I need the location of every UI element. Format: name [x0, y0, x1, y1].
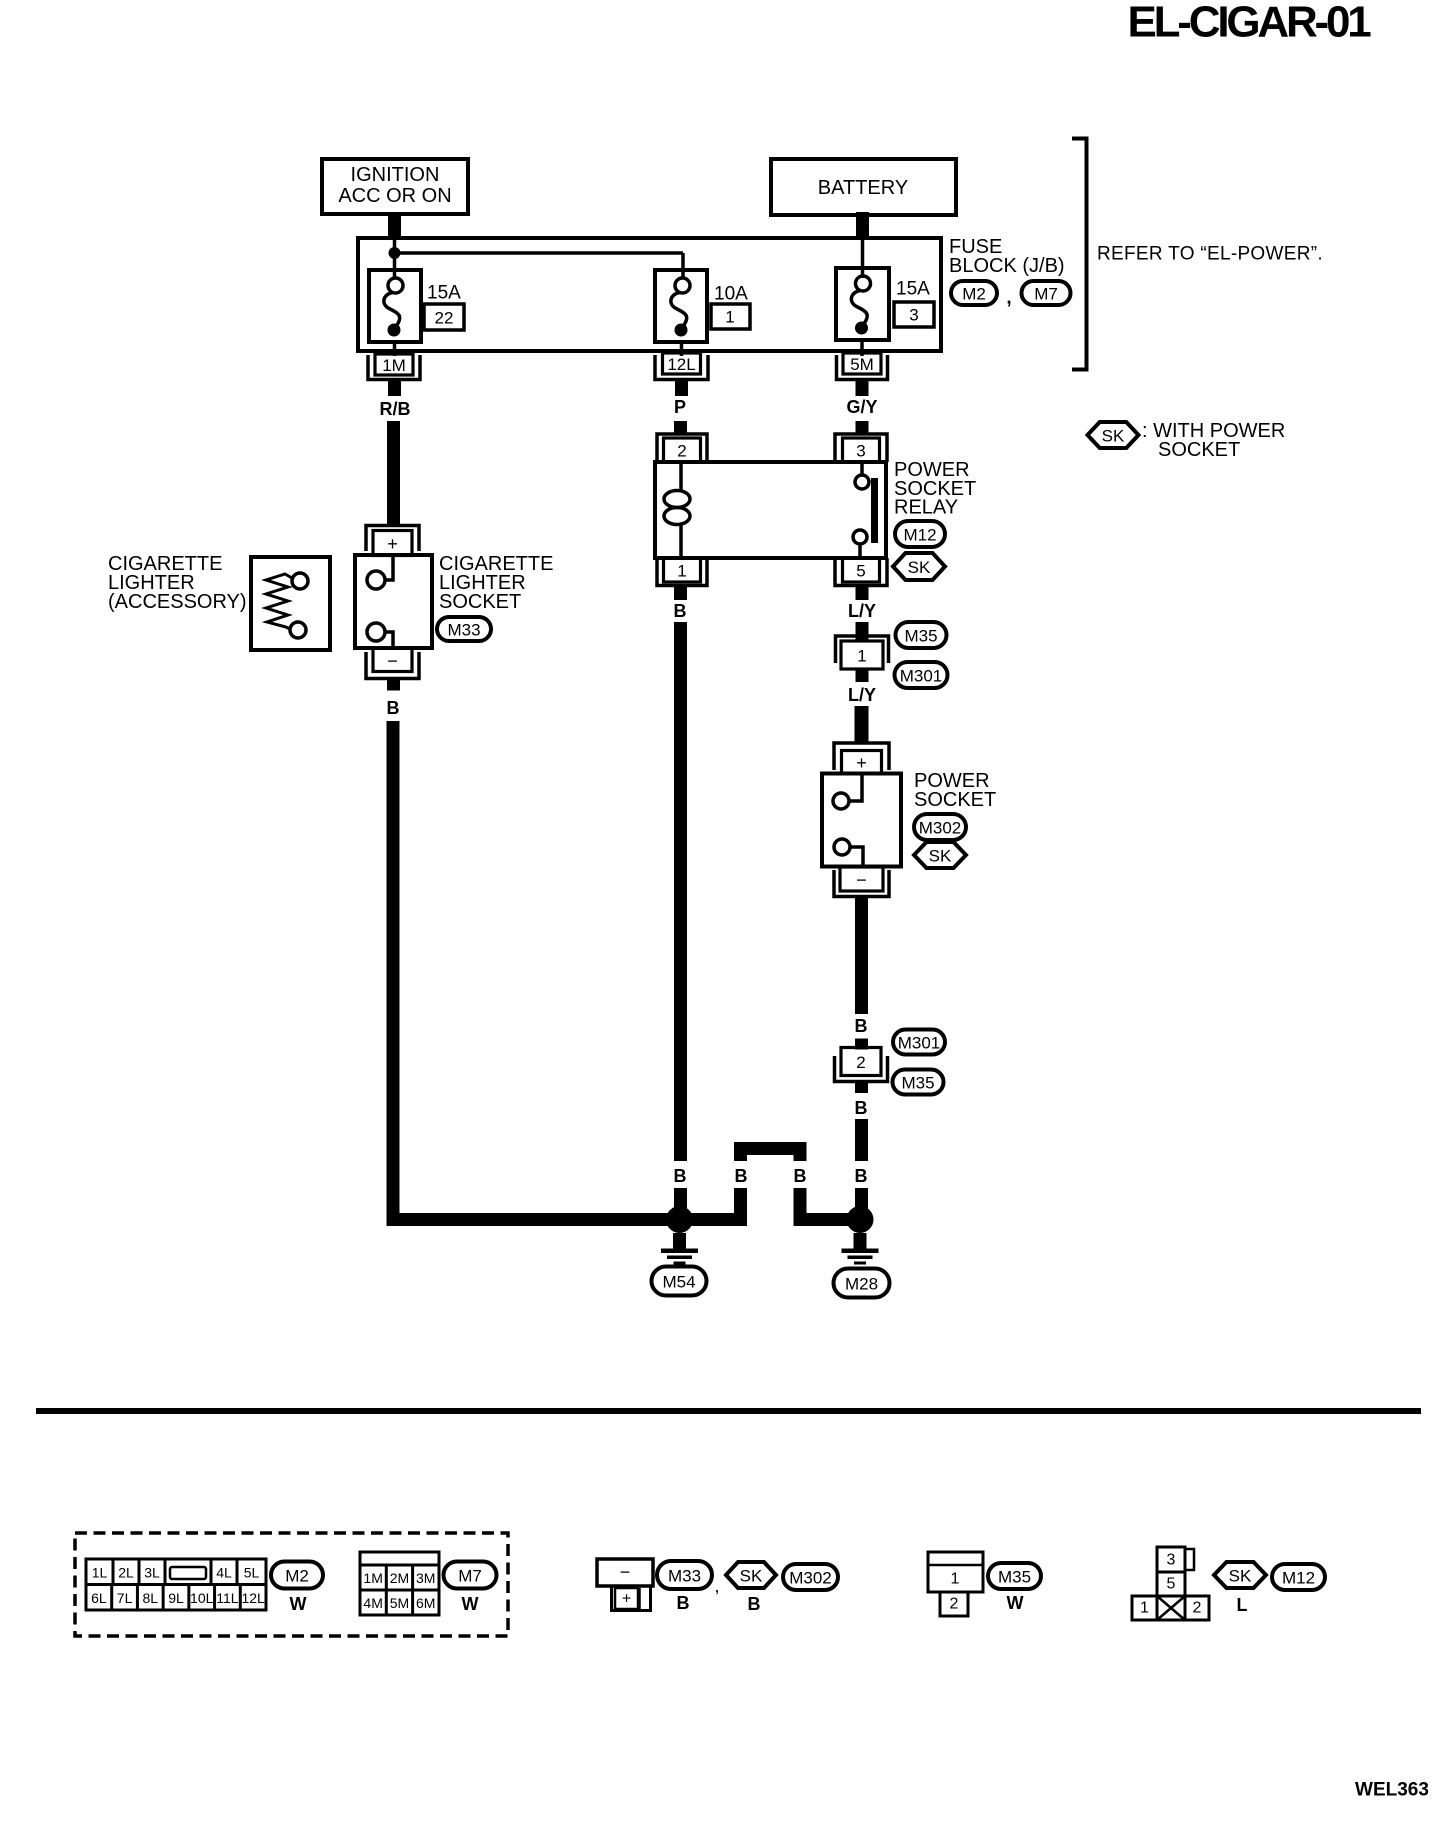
svg-text:1L: 1L	[92, 1565, 108, 1581]
svg-text:2M: 2M	[390, 1570, 409, 1586]
svg-text:4M: 4M	[363, 1595, 382, 1611]
svg-text:+: +	[856, 753, 867, 773]
svg-text:5M: 5M	[850, 355, 874, 374]
svg-text:M301: M301	[898, 1034, 941, 1053]
svg-text:,: ,	[714, 1576, 719, 1596]
svg-text:5M: 5M	[390, 1595, 409, 1611]
svg-text:M35: M35	[904, 627, 937, 646]
svg-text:SK: SK	[1229, 1567, 1252, 1586]
svg-text:W: W	[1007, 1593, 1024, 1613]
svg-text:ACC OR ON: ACC OR ON	[338, 185, 451, 207]
svg-text:M7: M7	[1034, 285, 1058, 304]
svg-text:6L: 6L	[91, 1590, 107, 1606]
svg-text:11L: 11L	[216, 1590, 239, 1606]
svg-text:SOCKET: SOCKET	[1158, 439, 1240, 461]
svg-text:M7: M7	[458, 1567, 482, 1586]
svg-text:1: 1	[1140, 1600, 1149, 1617]
svg-text:−: −	[387, 651, 398, 671]
svg-text:3: 3	[856, 442, 865, 461]
svg-text:7L: 7L	[117, 1590, 133, 1606]
svg-text:SOCKET: SOCKET	[914, 789, 996, 811]
svg-text:SK: SK	[740, 1567, 763, 1586]
svg-text:8L: 8L	[142, 1590, 158, 1606]
svg-text:M54: M54	[662, 1273, 695, 1292]
svg-text:5: 5	[856, 562, 865, 581]
svg-text:M302: M302	[919, 819, 962, 838]
svg-text:10A: 10A	[714, 284, 748, 305]
svg-text:L/Y: L/Y	[848, 685, 876, 705]
svg-text:REFER TO “EL-POWER”.: REFER TO “EL-POWER”.	[1097, 244, 1323, 265]
svg-text:BLOCK (J/B): BLOCK (J/B)	[949, 255, 1065, 277]
svg-text:22: 22	[435, 309, 454, 328]
svg-text:B: B	[794, 1166, 807, 1186]
svg-text:,: ,	[1006, 288, 1011, 309]
svg-text:2: 2	[1193, 1600, 1202, 1617]
svg-text:L/Y: L/Y	[848, 601, 876, 621]
svg-text:2: 2	[950, 1596, 959, 1613]
svg-text:1M: 1M	[363, 1570, 382, 1586]
svg-text:SK: SK	[1102, 427, 1125, 446]
svg-text:5: 5	[1167, 1576, 1176, 1593]
svg-text:+: +	[622, 1591, 631, 1608]
svg-text:P: P	[674, 397, 686, 417]
svg-text:B: B	[855, 1166, 868, 1186]
svg-text:IGNITION: IGNITION	[351, 164, 440, 186]
svg-text:SK: SK	[929, 847, 952, 866]
svg-text:−: −	[620, 1562, 631, 1582]
svg-text:M33: M33	[668, 1567, 701, 1586]
svg-text:1: 1	[857, 647, 866, 666]
svg-text:B: B	[677, 1593, 690, 1613]
svg-text:SOCKET: SOCKET	[439, 591, 521, 613]
svg-text:M12: M12	[1282, 1569, 1315, 1588]
svg-text:2: 2	[856, 1053, 865, 1072]
svg-text:12L: 12L	[667, 355, 695, 374]
svg-text:−: −	[856, 870, 867, 890]
svg-text:M2: M2	[285, 1567, 309, 1586]
svg-text:RELAY: RELAY	[894, 497, 958, 519]
svg-text:W: W	[462, 1594, 479, 1614]
svg-text:G/Y: G/Y	[846, 397, 877, 417]
svg-text:M35: M35	[998, 1568, 1031, 1587]
svg-text:1: 1	[951, 1571, 960, 1588]
svg-text:3: 3	[909, 306, 918, 325]
svg-text:B: B	[387, 698, 400, 718]
svg-text:3: 3	[1167, 1552, 1176, 1569]
svg-text:SK: SK	[908, 558, 931, 577]
svg-text:+: +	[387, 534, 398, 554]
svg-text:3M: 3M	[416, 1570, 435, 1586]
svg-text:B: B	[735, 1166, 748, 1186]
svg-text:M12: M12	[903, 526, 936, 545]
svg-text:B: B	[855, 1016, 868, 1036]
svg-text:9L: 9L	[168, 1590, 184, 1606]
svg-text:6M: 6M	[416, 1595, 435, 1611]
svg-text:1: 1	[677, 562, 686, 581]
svg-text:1: 1	[725, 308, 734, 327]
svg-text:3L: 3L	[144, 1565, 160, 1581]
svg-text:M35: M35	[901, 1074, 934, 1093]
svg-text:WEL363: WEL363	[1355, 1780, 1429, 1801]
svg-text:L: L	[1237, 1595, 1248, 1615]
svg-text:W: W	[290, 1594, 307, 1614]
svg-text:2L: 2L	[118, 1565, 134, 1581]
svg-text:1M: 1M	[382, 356, 406, 375]
svg-text:15A: 15A	[896, 279, 930, 300]
svg-text:B: B	[855, 1098, 868, 1118]
svg-text:2: 2	[677, 442, 686, 461]
svg-text:M301: M301	[900, 667, 943, 686]
svg-text:M28: M28	[845, 1275, 878, 1294]
svg-text:4L: 4L	[216, 1565, 232, 1581]
svg-text:R/B: R/B	[380, 399, 411, 419]
svg-text:M33: M33	[447, 621, 480, 640]
svg-text:(ACCESSORY): (ACCESSORY)	[108, 591, 247, 613]
svg-text:15A: 15A	[427, 283, 461, 304]
svg-text:B: B	[748, 1594, 761, 1614]
svg-text:M2: M2	[962, 285, 986, 304]
svg-text:5L: 5L	[244, 1565, 260, 1581]
svg-text:M302: M302	[789, 1569, 832, 1588]
svg-text:EL-CIGAR-01: EL-CIGAR-01	[1127, 0, 1371, 47]
svg-text:10L: 10L	[190, 1590, 214, 1606]
svg-text:12L: 12L	[241, 1590, 265, 1606]
svg-text:B: B	[674, 601, 687, 621]
svg-text:BATTERY: BATTERY	[818, 177, 908, 199]
svg-text:B: B	[674, 1166, 687, 1186]
